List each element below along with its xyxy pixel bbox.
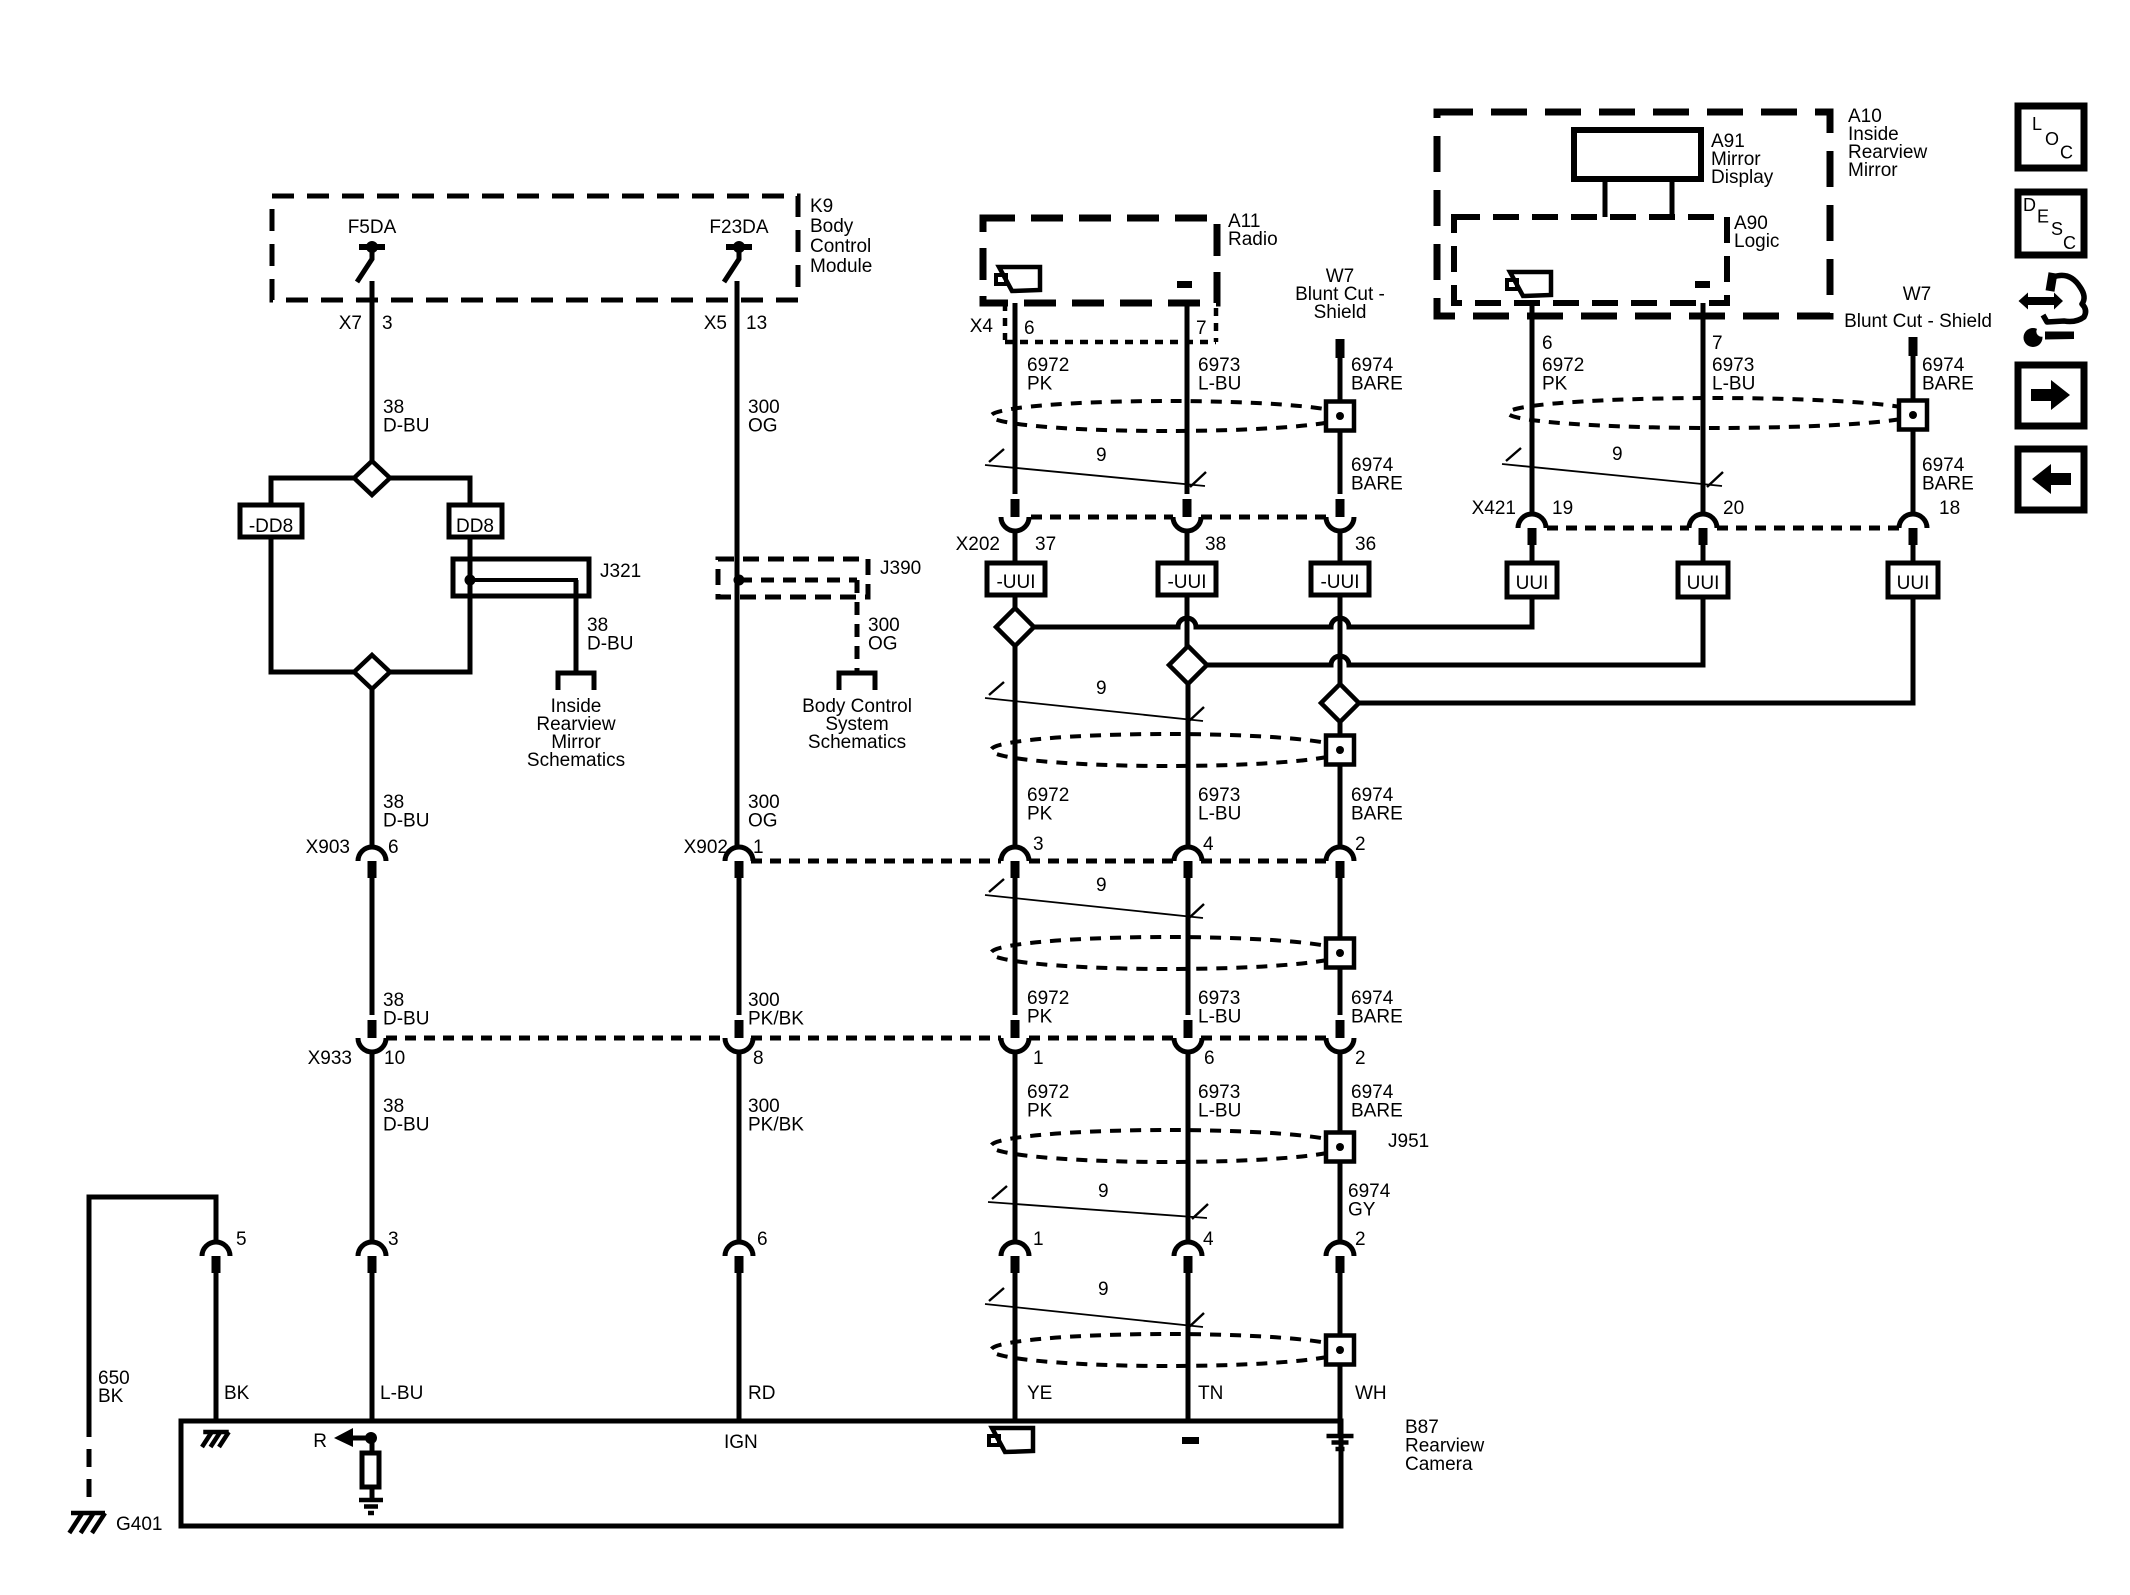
- shield ellipse 1: [991, 401, 1345, 431]
- shield ellipse 3: [991, 937, 1345, 969]
- connector X5 pin 13 labels: [704, 313, 767, 334]
- label circuit 6974 GY: [1348, 1181, 1391, 1221]
- svg-text:1: 1: [753, 837, 764, 858]
- module A11 Radio dashed box: [983, 218, 1217, 303]
- svg-text:X5: X5: [704, 313, 727, 334]
- shield ellipse 5: [991, 1334, 1345, 1366]
- wire X903 to X933, circuit 38 D-BU: [372, 878, 429, 1030]
- svg-text:W7: W7: [1903, 284, 1932, 305]
- svg-text:Mirror: Mirror: [1848, 160, 1898, 181]
- svg-text:38: 38: [1205, 534, 1226, 555]
- minus pin symbol in A90: [1695, 281, 1710, 288]
- label K9 Body Control Module: [810, 196, 872, 277]
- svg-text:E: E: [2037, 207, 2049, 227]
- W7 Blunt Cut - Shield (right): [1844, 284, 1992, 356]
- wire 6973 L-BU segment 3: [1188, 878, 1241, 1028]
- svg-text:OG: OG: [868, 634, 898, 655]
- label circuit 6974 BARE below drain 1: [1351, 455, 1403, 495]
- svg-text:Control: Control: [810, 236, 871, 257]
- svg-text:D-BU: D-BU: [587, 634, 633, 655]
- svg-text:6: 6: [757, 1229, 768, 1250]
- svg-text:Camera: Camera: [1405, 1454, 1473, 1475]
- shield ellipse right: [1508, 398, 1918, 428]
- svg-text:6: 6: [1024, 318, 1035, 339]
- svg-text:S: S: [2051, 219, 2063, 239]
- wire lower diamond to X903, circuit 38 D-BU: [372, 689, 429, 847]
- wire DD8 through splice J321 down to lower diamond: [390, 537, 470, 672]
- row 1245 pin 1: [1001, 1229, 1044, 1273]
- svg-text:10: 10: [384, 1048, 405, 1069]
- svg-text:7: 7: [1712, 333, 1723, 354]
- wire 650 BK dashed to G401: [89, 1368, 130, 1507]
- row 1245 pin 2: [1326, 1229, 1366, 1273]
- signal ground under resistor: [359, 1498, 383, 1503]
- svg-text:7: 7: [1196, 318, 1207, 339]
- svg-text:9: 9: [1096, 445, 1107, 466]
- wire to camera connector, circuit 300 PK/BK: [739, 1050, 804, 1242]
- net name box -UUI (2): [1158, 563, 1216, 595]
- svg-text:G401: G401: [116, 1514, 162, 1535]
- resistor inside B87: [362, 1453, 379, 1487]
- svg-text:X421: X421: [1472, 498, 1516, 519]
- off-page bracket Inside Rearview Mirror Schematics: [527, 673, 625, 771]
- connector X7 pin 3 labels: [339, 313, 393, 334]
- svg-text:9: 9: [1098, 1279, 1109, 1300]
- wire X933 to camera connector, circuit 38 D-BU: [372, 1050, 429, 1242]
- svg-text:BARE: BARE: [1351, 1007, 1403, 1028]
- svg-text:2: 2: [1355, 1048, 1366, 1069]
- svg-text:F23DA: F23DA: [709, 217, 768, 238]
- svg-text:PK: PK: [1027, 374, 1053, 395]
- module K9 Body Control Module dashed box: [272, 196, 798, 300]
- connector X202 pin 36: [1326, 499, 1376, 555]
- svg-text:D-BU: D-BU: [383, 1009, 429, 1030]
- shield drain square 5: [1326, 1336, 1354, 1365]
- twisted pair symbol 9 (C): [985, 875, 1204, 919]
- svg-text:BARE: BARE: [1351, 374, 1403, 395]
- svg-text:PK: PK: [1027, 804, 1053, 825]
- wire diamond1 down, circuit 6972 PK: [1015, 646, 1069, 847]
- connector X202 dashed line: [1031, 515, 1173, 520]
- svg-text:PK: PK: [1027, 1101, 1053, 1122]
- svg-text:BK: BK: [98, 1386, 124, 1407]
- legend icon arrow left: [2018, 449, 2084, 510]
- minus pin symbol in A11: [1177, 281, 1192, 288]
- wire A90 pin 7, circuit 6973 L-BU: [1703, 303, 1755, 514]
- svg-text:Module: Module: [810, 256, 872, 277]
- svg-text:Radio: Radio: [1228, 229, 1278, 250]
- svg-text:-UUI: -UUI: [996, 572, 1035, 593]
- svg-text:9: 9: [1096, 875, 1107, 896]
- svg-text:PK: PK: [1542, 374, 1568, 395]
- svg-text:X933: X933: [308, 1048, 352, 1069]
- wire diamond2 down, circuit 6973 L-BU: [1188, 684, 1241, 847]
- svg-text:PK/BK: PK/BK: [748, 1009, 804, 1030]
- svg-text:BARE: BARE: [1351, 804, 1403, 825]
- shield ellipse 2: [991, 734, 1345, 766]
- svg-text:D-BU: D-BU: [383, 811, 429, 832]
- wire 6972 PK segment 3: [1015, 878, 1069, 1028]
- splice diamond 2: [1169, 646, 1207, 684]
- wire J390 dashed branch, circuit 300 OG: [739, 580, 900, 673]
- row 860 pin 4: [1174, 834, 1214, 878]
- svg-text:L-BU: L-BU: [1198, 374, 1241, 395]
- splice diamond lower: [354, 655, 390, 689]
- connector X903 pin 6: [306, 837, 399, 878]
- wire resistor to ground: [370, 1487, 375, 1501]
- net name box -UUI (1): [987, 563, 1045, 595]
- wire to B87 minus pin, TN: [1188, 1273, 1223, 1421]
- svg-text:18: 18: [1939, 498, 1960, 519]
- svg-text:X202: X202: [956, 534, 1000, 555]
- svg-text:-UUI: -UUI: [1320, 572, 1359, 593]
- wire 6974 BARE segment 4: [1340, 1050, 1403, 1242]
- wire F23DA down, circuit 300 OG: [737, 281, 780, 847]
- svg-text:Schematics: Schematics: [527, 750, 625, 771]
- connector X421 pin 18: [1899, 498, 1960, 545]
- svg-text:TN: TN: [1198, 1383, 1223, 1404]
- wire pin5 to B87, BK: [216, 1273, 250, 1421]
- svg-text:Display: Display: [1711, 167, 1774, 188]
- wire A11 pin 6, circuit 6972 PK: [1015, 303, 1069, 494]
- display A91 Mirror Display box: [1574, 130, 1774, 188]
- svg-text:X4: X4: [970, 316, 994, 337]
- wire diamond to -DD8: [271, 478, 354, 505]
- wire diamond3 down, circuit 6974 BARE: [1340, 722, 1403, 847]
- wire X202-37 to -UUI: [1013, 530, 1018, 563]
- wire X421-18 to UUI: [1911, 545, 1916, 563]
- svg-text:O: O: [2045, 129, 2059, 149]
- bus wire diamond2 to right UUI with hop: [1207, 597, 1703, 665]
- svg-text:C: C: [2063, 233, 2076, 253]
- X933 row pin 1: [1001, 1020, 1044, 1069]
- svg-text:OG: OG: [748, 416, 778, 437]
- svg-text:PK/BK: PK/BK: [748, 1115, 804, 1136]
- label circuit 300 OG lower: [748, 792, 780, 832]
- svg-text:Schematics: Schematics: [808, 732, 906, 753]
- svg-text:OG: OG: [748, 811, 778, 832]
- svg-text:4: 4: [1203, 1229, 1214, 1250]
- net name box UUI (2): [1678, 563, 1728, 597]
- fuse F23DA: [709, 217, 768, 282]
- svg-text:L-BU: L-BU: [380, 1383, 423, 1404]
- wire 6973 L-BU segment 4: [1188, 1050, 1241, 1242]
- fuse F5DA: [348, 217, 397, 282]
- row 1245 pin 4: [1174, 1229, 1214, 1273]
- splice diamond 3: [1321, 684, 1359, 722]
- W7 Blunt Cut - Shield (left): [1295, 266, 1385, 358]
- module B87 Rearview Camera box: [181, 1421, 1341, 1526]
- svg-text:L-BU: L-BU: [1198, 804, 1241, 825]
- connector X933 pin 10: [308, 1020, 406, 1069]
- legend icon LOC: [2018, 106, 2084, 168]
- ground pin symbol in B87: [1338, 1421, 1343, 1436]
- splice J321 box: [453, 559, 641, 596]
- wire X902 to X933 row, circuit 300 PK/BK: [739, 878, 804, 1030]
- shield drain square right: [1899, 401, 1927, 430]
- wire J321 branch, circuit 38 D-BU: [576, 580, 633, 673]
- svg-text:UUI: UUI: [1516, 573, 1549, 594]
- bus wire diamond1 to right UUI with hops: [1034, 597, 1532, 627]
- wire A11 pin 7, circuit 6973 L-BU: [1187, 303, 1241, 494]
- svg-text:-DD8: -DD8: [249, 516, 293, 537]
- svg-text:13: 13: [746, 313, 767, 334]
- svg-text:L-BU: L-BU: [1198, 1007, 1241, 1028]
- svg-text:D: D: [2023, 195, 2036, 215]
- svg-text:Body: Body: [810, 216, 854, 237]
- pedestal lines A91 to A90: [1603, 179, 1608, 217]
- svg-text:J321: J321: [600, 561, 641, 582]
- svg-text:Blunt Cut - Shield: Blunt Cut - Shield: [1844, 311, 1992, 332]
- connector X933 row pin 8: [725, 1020, 764, 1069]
- camera symbol in A11: [999, 267, 1040, 291]
- svg-text:BARE: BARE: [1351, 1101, 1403, 1122]
- svg-text:IGN: IGN: [724, 1432, 758, 1453]
- wire -UUI to diamond 1: [1013, 595, 1018, 609]
- svg-text:BARE: BARE: [1351, 474, 1403, 495]
- splice J390 dashed box: [718, 558, 921, 597]
- svg-text:3: 3: [388, 1229, 399, 1250]
- net name box UUI (3): [1888, 563, 1938, 597]
- net name box DD8: [449, 505, 502, 537]
- svg-text:D-BU: D-BU: [383, 416, 429, 437]
- wire to B87 ground pin, WH: [1340, 1273, 1387, 1421]
- wire to B87 camera pin, YE: [1015, 1273, 1052, 1421]
- wire B87 pin 5 BK up and over: [89, 1197, 216, 1419]
- X933 row pin 2: [1326, 1020, 1366, 1069]
- wire X421-19 to UUI: [1530, 545, 1535, 563]
- splice diamond 1: [996, 608, 1034, 646]
- off-page bracket Body Control System Schematics: [802, 673, 912, 753]
- svg-text:3: 3: [1033, 834, 1044, 855]
- svg-text:19: 19: [1552, 498, 1573, 519]
- svg-text:1: 1: [1033, 1048, 1044, 1069]
- camera symbol in B87: [992, 1428, 1033, 1452]
- svg-text:6: 6: [1204, 1048, 1215, 1069]
- svg-text:6: 6: [388, 837, 399, 858]
- svg-text:J390: J390: [880, 558, 921, 579]
- svg-text:X7: X7: [339, 313, 362, 334]
- module A90 Logic dashed box: [1454, 213, 1779, 303]
- svg-text:L-BU: L-BU: [1198, 1101, 1241, 1122]
- shield ellipse 4: [991, 1130, 1345, 1162]
- wire 6972 PK segment 4: [1015, 1050, 1069, 1242]
- svg-text:3: 3: [382, 313, 393, 334]
- svg-text:DD8: DD8: [456, 516, 494, 537]
- wire to B87 pin R, L-BU: [372, 1273, 423, 1421]
- reverse signal pin R with arrow and resistor: [313, 1428, 377, 1453]
- net name box -UUI (3): [1311, 563, 1369, 595]
- svg-text:1: 1: [1033, 1229, 1044, 1250]
- bus wire diamond3 to right UUI: [1359, 597, 1913, 703]
- svg-text:2: 2: [1355, 834, 1366, 855]
- svg-text:C: C: [2060, 143, 2073, 163]
- connector X902 pin 1: [684, 837, 764, 878]
- shield drain square 1: [1326, 402, 1354, 431]
- svg-text:X903: X903: [306, 837, 350, 858]
- wire -DD8 to lower diamond: [271, 537, 354, 672]
- svg-text:-UUI: -UUI: [1167, 572, 1206, 593]
- X933 row dashed connector line: [386, 1036, 723, 1041]
- wire -UUI to diamond 2: [1185, 595, 1190, 647]
- svg-text:BARE: BARE: [1922, 374, 1974, 395]
- svg-text:PK: PK: [1027, 1007, 1053, 1028]
- svg-text:9: 9: [1096, 678, 1107, 699]
- connector X4 dashed outline and pins 6 7: [970, 303, 1216, 342]
- svg-text:D-BU: D-BU: [383, 1115, 429, 1136]
- svg-text:GY: GY: [1348, 1200, 1376, 1221]
- svg-text:8: 8: [753, 1048, 764, 1069]
- svg-text:WH: WH: [1355, 1383, 1387, 1404]
- row 860 pin 2: [1326, 834, 1366, 878]
- svg-text:20: 20: [1723, 498, 1744, 519]
- svg-text:UUI: UUI: [1897, 573, 1930, 594]
- connector X421 pin 20: [1689, 498, 1744, 545]
- svg-text:L: L: [2032, 114, 2042, 134]
- wire diamond to DD8: [390, 478, 470, 505]
- svg-text:9: 9: [1612, 444, 1623, 465]
- svg-text:4: 4: [1203, 834, 1214, 855]
- wire X202-36 to -UUI: [1338, 530, 1343, 563]
- legend icon arrow right: [2018, 365, 2084, 426]
- row 860 dashed connector line: [751, 859, 1001, 864]
- twisted pair symbol 9 (D): [988, 1181, 1208, 1219]
- net name box -DD8: [240, 505, 302, 537]
- svg-text:6: 6: [1542, 333, 1553, 354]
- wire X202-38 to -UUI: [1185, 530, 1190, 563]
- module A10 Inside Rearview Mirror dashed box: [1437, 112, 1830, 316]
- svg-text:L-BU: L-BU: [1712, 374, 1755, 395]
- wire right W7 shield, circuit 6974 BARE: [1913, 355, 1974, 514]
- connector X421 pin 19: [1472, 498, 1574, 545]
- svg-text:2: 2: [1355, 1229, 1366, 1250]
- svg-text:BK: BK: [224, 1383, 250, 1404]
- svg-text:YE: YE: [1027, 1383, 1052, 1404]
- X933 row pin 6: [1174, 1020, 1215, 1069]
- shield drain square 2: [1326, 736, 1354, 765]
- svg-text:K9: K9: [810, 196, 833, 217]
- in-line connector pin 3: [358, 1229, 399, 1273]
- svg-text:5: 5: [236, 1229, 247, 1250]
- wire F5DA to splice diamond, circuit 38 D-BU: [370, 281, 375, 461]
- twisted pair symbol 9 (E): [985, 1279, 1204, 1328]
- net name box UUI (1): [1507, 563, 1557, 597]
- svg-text:37: 37: [1035, 534, 1056, 555]
- camera symbol in A90: [1510, 272, 1551, 296]
- minus pin symbol in B87: [1182, 1437, 1199, 1444]
- svg-text:Logic: Logic: [1734, 231, 1779, 252]
- row 860 pin 3: [1001, 834, 1044, 878]
- svg-text:UUI: UUI: [1687, 573, 1720, 594]
- splice diamond upper: [354, 461, 390, 495]
- svg-text:Shield: Shield: [1314, 302, 1367, 323]
- in-line connector pin 6: [725, 1229, 768, 1273]
- svg-text:36: 36: [1355, 534, 1376, 555]
- shield drain square 4 splice J951: [1326, 1131, 1429, 1162]
- wire W7 shield, circuit 6974 BARE: [1340, 355, 1403, 494]
- svg-text:R: R: [313, 1431, 327, 1452]
- wire to B87 pin IGN, RD: [739, 1273, 775, 1421]
- ground G401: [69, 1513, 162, 1535]
- svg-text:9: 9: [1098, 1181, 1109, 1202]
- shield drain square 3: [1326, 939, 1354, 968]
- wire 6974 BARE segment 3: [1340, 878, 1403, 1028]
- connector X202 pin 38: [1173, 499, 1226, 555]
- legend icon DESC: [2018, 192, 2084, 255]
- legend icon jump arrows with wrench: [2019, 273, 2086, 347]
- connector X202 pin 37: [956, 499, 1057, 555]
- chassis ground pin inside B87: [203, 1430, 229, 1435]
- connector X421 dashed line: [1547, 526, 1689, 531]
- twisted pair symbol 9 (A): [985, 445, 1206, 487]
- label circuit 6974 BARE right lower: [1922, 455, 1974, 495]
- svg-text:F5DA: F5DA: [348, 217, 397, 238]
- svg-text:BARE: BARE: [1922, 474, 1974, 495]
- svg-text:RD: RD: [748, 1383, 775, 1404]
- connector pin 5: [202, 1229, 247, 1273]
- wire A90 pin 6, circuit 6972 PK: [1532, 303, 1584, 514]
- svg-text:J951: J951: [1388, 1131, 1429, 1152]
- wire -UUI to diamond 3: [1338, 595, 1343, 685]
- twisted pair symbol 9 (right): [1502, 444, 1723, 487]
- svg-text:X902: X902: [684, 837, 728, 858]
- twisted pair symbol 9 (B): [985, 678, 1204, 722]
- wire X421-20 to UUI: [1701, 545, 1706, 563]
